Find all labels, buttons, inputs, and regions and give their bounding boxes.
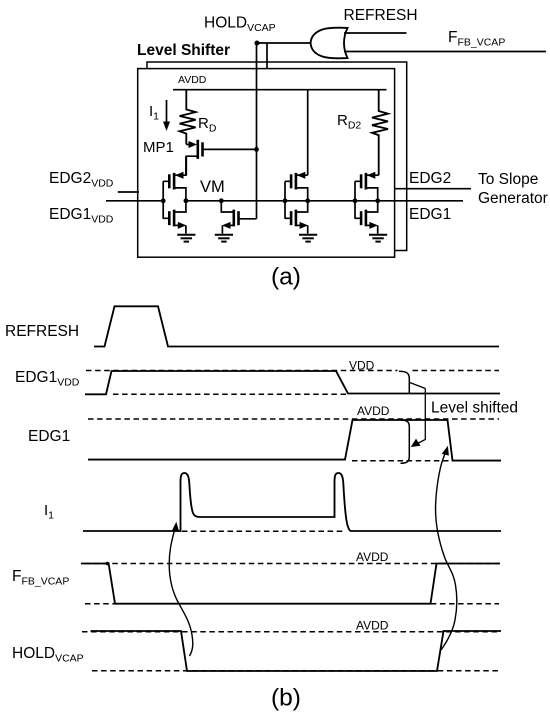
svg-text:VDD: VDD	[349, 359, 375, 373]
wire stage2 PMOS source from rail	[307, 90, 309, 176]
dashed low level row4	[182, 530, 345, 532]
annotation slant row2	[410, 383, 426, 389]
svg-text:EDG1: EDG1	[409, 206, 451, 223]
node stage2 input dot	[283, 198, 288, 203]
or-gate G1 (mirrored, inputs on right)	[311, 28, 348, 59]
transistor M2 NMOS stage1	[169, 201, 186, 234]
annotation hump row2	[399, 371, 409, 393]
annotation step-down row3	[401, 420, 410, 463]
transistor M3 PMOS stage2	[291, 172, 308, 201]
wire EDG1_VDD input	[106, 200, 163, 202]
waveform HOLD_VCAP	[91, 631, 502, 671]
svg-text:To Slope: To Slope	[478, 171, 538, 188]
current arrow I1	[166, 100, 168, 125]
svg-text:EDG2VDD: EDG2VDD	[49, 170, 114, 190]
resistor RD	[180, 90, 196, 145]
svg-text:EDG1: EDG1	[28, 428, 70, 445]
svg-text:FFB_VCAP: FFB_VCAP	[448, 29, 505, 49]
waveform REFRESH	[94, 306, 499, 346]
transistor M1 PMOS stage1	[169, 156, 186, 201]
wire AVDD rail	[173, 89, 387, 91]
svg-text:AVDD: AVDD	[356, 550, 389, 564]
ground MN2	[215, 235, 233, 242]
wire EDG2_VDD input	[118, 191, 139, 193]
svg-text:(a): (a)	[271, 264, 301, 291]
resistor RD2	[372, 90, 388, 176]
node stage1 input dot	[161, 198, 166, 203]
transistor M6 NMOS stage3	[361, 201, 378, 234]
svg-text:I1: I1	[44, 502, 54, 522]
svg-text:REFRESH: REFRESH	[344, 7, 418, 24]
inverter stage1 gate bus	[163, 181, 169, 218]
node stage3 output dot	[375, 198, 380, 203]
dashed VDD level row2	[86, 370, 499, 372]
inverter stage2 gate bus	[285, 181, 291, 218]
node MP1 gate dot on HOLD line	[254, 147, 259, 152]
wire VM output bus	[186, 200, 463, 202]
svg-text:EDG1VDD: EDG1VDD	[49, 206, 114, 226]
svg-text:AVDD: AVDD	[357, 404, 390, 418]
dashed low level row5	[85, 603, 499, 605]
svg-text:FFB_VCAP: FFB_VCAP	[12, 568, 69, 588]
wire F_FB_VCAP input	[344, 51, 546, 53]
transistor M5 PMOS stage3	[361, 172, 379, 201]
dashed low level row2	[113, 393, 346, 395]
node HOLD junction dot	[255, 41, 260, 46]
ground stage3	[369, 235, 387, 242]
annotation arrow Level shifted	[418, 389, 426, 444]
svg-text:HOLDVCAP: HOLDVCAP	[12, 645, 84, 665]
waveform EDG1VDD	[85, 371, 500, 394]
svg-text:(b): (b)	[271, 685, 301, 712]
svg-text:EDG1VDD: EDG1VDD	[15, 369, 80, 389]
svg-text:AVDD: AVDD	[178, 74, 207, 86]
svg-text:Generator: Generator	[478, 190, 548, 207]
box back instance	[147, 62, 407, 251]
svg-text:EDG2: EDG2	[409, 170, 451, 187]
wire EDG2 output	[395, 188, 471, 190]
node stage2 output dot	[305, 198, 310, 203]
dashed low level row6	[92, 670, 499, 672]
inverter stage3 gate bus	[355, 181, 361, 218]
ground stage2	[299, 235, 317, 242]
waveform F_FB_VCAP	[81, 564, 500, 604]
wire HOLD output of gate	[257, 42, 312, 44]
ground stage1	[177, 235, 195, 242]
svg-text:HOLDVCAP: HOLDVCAP	[204, 15, 276, 35]
node glitch dot F start	[106, 562, 110, 566]
node stage3 input dot	[353, 198, 358, 203]
transistor MN2 NMOS (HOLD controlled, faces left)	[221, 201, 256, 234]
node stage1 output dot	[184, 198, 189, 203]
dashed AVDD level row6	[82, 631, 499, 633]
dashed AVDD level row3	[88, 418, 499, 420]
annotation S-arrow left (HOLD fall to I1 spike)	[169, 525, 193, 656]
svg-text:VM: VM	[200, 178, 225, 196]
transistor MP1 (PMOS, faces right/gate at right)	[186, 140, 256, 175]
box front instance	[138, 69, 395, 258]
dashed low level row3	[352, 460, 450, 462]
dashed AVDD level row5	[85, 563, 499, 565]
transistor M4 NMOS stage2	[291, 201, 308, 234]
wire HOLD vertical to front box	[256, 43, 258, 219]
waveform EDG1	[88, 420, 501, 461]
wire REFRESH input	[344, 32, 407, 34]
svg-text:MP1: MP1	[143, 139, 174, 156]
annotation S-arrow right (HOLD rise to EDG1 fall)	[436, 450, 457, 650]
wire HOLD vertical to back box	[266, 43, 268, 69]
node VM dot	[219, 198, 224, 203]
svg-text:AVDD: AVDD	[356, 619, 389, 633]
svg-text:Level Shifter: Level Shifter	[137, 42, 230, 59]
svg-text:Level shifted: Level shifted	[431, 400, 518, 417]
svg-text:REFRESH: REFRESH	[5, 323, 79, 340]
waveform I1 with spikes	[83, 473, 501, 531]
